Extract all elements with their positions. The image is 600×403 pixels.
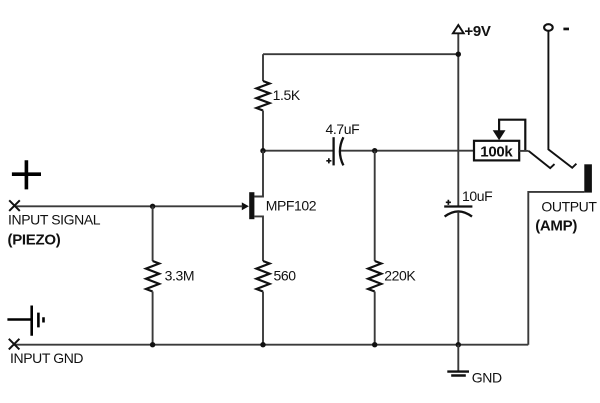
label minus <box>563 28 569 31</box>
terminal X input gnd <box>9 339 20 350</box>
wire 3.3M top lead <box>152 206 154 261</box>
svg-text:4.7uF: 4.7uF <box>326 121 360 137</box>
terminal circle minus <box>544 24 553 31</box>
polarity plus of 10uF <box>446 200 451 205</box>
wire pot right terminal <box>519 150 528 152</box>
resistor R3 560 <box>256 261 269 292</box>
wire ground stub <box>457 345 459 372</box>
junction supply rail node <box>456 52 461 57</box>
wire drain node horizontal to cap <box>263 150 334 152</box>
svg-text:MPF102: MPF102 <box>266 197 317 213</box>
capacitor C2 10uF curved plate <box>445 211 472 216</box>
power symbol +9V triangle <box>453 25 464 33</box>
svg-text:3.3M: 3.3M <box>165 268 195 284</box>
wire 220K bottom lead <box>374 292 376 345</box>
transistor Q1 MPF102 channel bar <box>249 192 254 219</box>
input ground marker rotated ground symbol <box>7 306 43 336</box>
svg-text:GND: GND <box>472 370 502 386</box>
terminal X input signal <box>9 200 20 211</box>
wire gate lead <box>15 205 243 207</box>
svg-text:560: 560 <box>274 268 297 284</box>
wire drain stub <box>254 151 263 197</box>
svg-text:(AMP): (AMP) <box>535 218 577 235</box>
capacitor C1 4.7uF curved plate <box>340 137 344 165</box>
polarity plus of 4.7uF <box>326 158 331 163</box>
capacitor C2 10uF straight plate <box>444 205 472 207</box>
wire cap to pot <box>341 150 474 152</box>
svg-text:220K: 220K <box>384 268 416 284</box>
junction 220K top node <box>372 148 377 153</box>
polarity plus input marker <box>12 160 41 189</box>
junction drain node <box>260 148 265 153</box>
wire 1.5K bottom lead <box>262 111 264 151</box>
junction ground rail at 3.3M <box>150 342 155 347</box>
resistor R2 3.3M <box>146 261 159 292</box>
wire 1.5K top lead <box>262 54 264 81</box>
wire top supply rail <box>263 53 458 55</box>
wire output return <box>528 192 584 345</box>
svg-text:INPUT GND: INPUT GND <box>10 350 83 366</box>
junction ground rail at GND <box>456 342 461 347</box>
svg-text:(PIEZO): (PIEZO) <box>8 231 61 248</box>
wire jack sleeve line with hook <box>548 31 576 168</box>
svg-text:100k: 100k <box>480 143 513 160</box>
wire 220K top lead <box>374 151 376 261</box>
wire +9V vertical down to 10uF <box>457 33 459 206</box>
transistor Q1 gate arrow <box>242 202 249 210</box>
potentiometer wiper arrow <box>493 130 506 140</box>
svg-text:OUTPUT: OUTPUT <box>541 199 597 215</box>
wire 3.3M bottom lead <box>152 292 154 345</box>
ground symbol <box>447 372 469 376</box>
resistor 1.5K <box>256 81 269 111</box>
svg-text:1.5K: 1.5K <box>273 87 301 103</box>
svg-text:+9V: +9V <box>464 23 491 40</box>
wire 560 bottom lead <box>262 292 264 345</box>
junction gate node <box>150 204 155 209</box>
junction ground rail at 220K <box>372 342 377 347</box>
wire 10uF bottom lead <box>457 212 459 345</box>
potentiometer wiper loop wire <box>499 120 525 151</box>
resistor R4 220K <box>368 261 381 292</box>
wire source stub <box>254 216 263 261</box>
wire ground rail <box>14 344 528 346</box>
svg-text:10uF: 10uF <box>462 188 492 204</box>
output jack tip bar <box>584 164 592 192</box>
svg-text:INPUT SIGNAL: INPUT SIGNAL <box>8 211 101 227</box>
capacitor C1 4.7uF straight plate <box>332 137 334 165</box>
junction ground rail at 560 <box>260 342 265 347</box>
potentiometer R5 100k body <box>474 141 519 161</box>
wire hook from pot to jack tip <box>529 151 555 168</box>
